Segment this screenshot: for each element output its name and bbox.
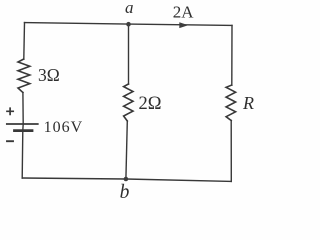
svg-text:2A: 2A xyxy=(173,3,195,22)
svg-text:a: a xyxy=(125,0,134,17)
battery + terminal xyxy=(7,108,13,114)
wire bottom (b to corners) xyxy=(22,178,231,181)
battery V 106V long plate xyxy=(7,123,38,125)
battery - terminal xyxy=(7,140,13,142)
wire middle lower xyxy=(126,121,127,179)
svg-text:R: R xyxy=(242,93,254,113)
resistor 2ohm xyxy=(124,84,133,121)
resistor R xyxy=(226,85,236,121)
resistor 3ohm xyxy=(18,59,30,93)
svg-text:b: b xyxy=(120,182,130,203)
current arrow 2A xyxy=(180,23,188,28)
battery V 106V short plate xyxy=(15,129,33,132)
wire left upper xyxy=(23,23,26,59)
svg-text:106V: 106V xyxy=(44,119,84,136)
wire middle upper xyxy=(128,24,130,84)
wire right lower xyxy=(230,121,232,182)
wire top (a to corners) xyxy=(25,23,233,26)
wire left lower (through battery) xyxy=(22,93,23,179)
wire right upper xyxy=(231,25,233,85)
node a xyxy=(126,22,131,27)
svg-text:3Ω: 3Ω xyxy=(38,65,60,85)
svg-text:2Ω: 2Ω xyxy=(139,94,162,114)
node b xyxy=(124,177,129,182)
